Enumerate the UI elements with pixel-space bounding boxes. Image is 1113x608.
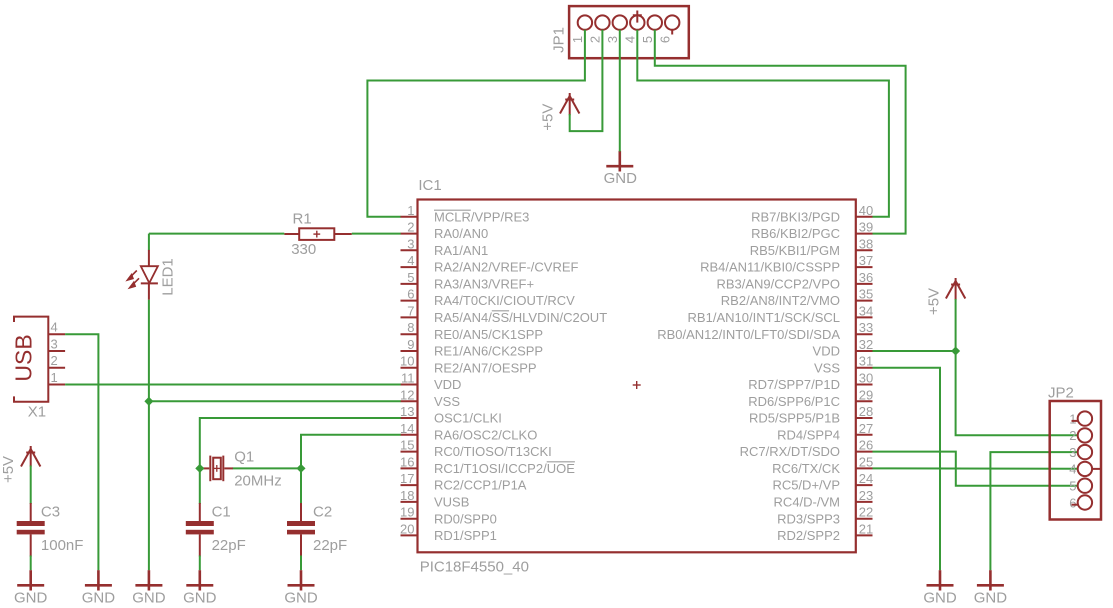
IC1 pin 27 stub [856, 434, 873, 436]
svg-text:3: 3 [605, 36, 620, 43]
svg-text:2: 2 [588, 36, 603, 43]
svg-text:100nF: 100nF [41, 537, 84, 554]
IC1 pin 30 stub [856, 384, 873, 386]
IC1 pin 40 stub [856, 216, 873, 218]
+5V supply symbol (left) [21, 446, 40, 467]
svg-text:25: 25 [859, 454, 873, 469]
svg-text:GND: GND [974, 590, 1008, 607]
svg-text:Q1: Q1 [234, 449, 254, 466]
svg-text:RB0/AN12/INT0/LFT0/SDI/SDA: RB0/AN12/INT0/LFT0/SDI/SDA [657, 327, 840, 342]
svg-text:C1: C1 [212, 504, 231, 521]
wire R1 to IC pin2 [352, 233, 401, 235]
svg-text:4: 4 [51, 320, 58, 335]
svg-text:RC6/TX/CK: RC6/TX/CK [772, 461, 840, 476]
X1 pin 3 stub [48, 350, 65, 352]
svg-text:13: 13 [400, 404, 414, 419]
svg-text:RA5/AN4/SS/HLVDIN/C2OUT: RA5/AN4/SS/HLVDIN/C2OUT [434, 310, 607, 325]
wire +5V to C3 [30, 466, 32, 505]
capacitor C3 [17, 503, 45, 557]
svg-text:RC7/RX/DT/SDO: RC7/RX/DT/SDO [740, 444, 840, 459]
JP1 pin 6 circle [665, 15, 679, 29]
connector JP1 [569, 6, 689, 58]
ground symbol at x=149 [135, 570, 162, 590]
wire IC pin14 OSC2 branch [301, 435, 401, 469]
svg-text:34: 34 [859, 303, 873, 318]
svg-text:RB4/AN11/KBI0/CSSPP: RB4/AN11/KBI0/CSSPP [700, 260, 840, 275]
+5V supply symbol (right) [946, 278, 965, 300]
op IC1 PIC18F4550 body [418, 200, 856, 553]
svg-text:31: 31 [859, 354, 873, 369]
ground symbol at x=98 [85, 570, 112, 590]
JP2 pin 1 circle [1078, 411, 1092, 425]
IC1 pin 2 stub [401, 233, 418, 235]
IC1 pin 12 stub [401, 400, 418, 402]
overline for SS [492, 310, 509, 312]
wire IC pin32 VDD to +5V rail [873, 350, 956, 352]
svg-text:GND: GND [82, 590, 116, 607]
svg-text:28: 28 [859, 404, 873, 419]
IC1 pin 4 stub [401, 266, 418, 268]
svg-text:PIC18F4550_40: PIC18F4550_40 [420, 559, 529, 576]
svg-text:VSS: VSS [814, 360, 840, 375]
IC1 pin 22 stub [856, 518, 873, 520]
wire crystal left lead [200, 467, 204, 469]
IC1 pin 14 stub [401, 434, 418, 436]
X1 pin 2 stub [48, 367, 65, 369]
svg-text:10: 10 [400, 354, 414, 369]
svg-text:37: 37 [859, 253, 873, 268]
wire IC pin26 RC7 to JP2 pin5 [873, 452, 1079, 486]
JP1 pin 5 circle [648, 15, 662, 29]
IC1 pin 33 stub [856, 333, 873, 335]
IC1 pin 10 stub [401, 367, 418, 369]
wire LED corner to R1 [149, 233, 284, 235]
junction +5V rail / pin32 [951, 346, 960, 355]
ground symbol at x=990 [977, 570, 1004, 590]
svg-text:OSC1/CLKI: OSC1/CLKI [434, 411, 502, 426]
JP1 pin 1 circle [578, 15, 592, 29]
wire X1 pin1 to IC pin11 VDD [65, 384, 401, 386]
junction crystal left node [195, 464, 204, 473]
svg-text:GND: GND [132, 590, 166, 607]
IC1 pin 6 stub [401, 300, 418, 302]
connector JP2 body [1050, 401, 1101, 520]
wire C2 top [300, 468, 302, 504]
IC1 pin 21 stub [856, 534, 873, 536]
svg-text:RD4/SPP4: RD4/SPP4 [777, 427, 840, 442]
svg-text:3: 3 [51, 337, 58, 352]
svg-text:RC1/T1OSI/ICCP2/UOE: RC1/T1OSI/ICCP2/UOE [434, 461, 575, 476]
svg-text:GND: GND [604, 170, 638, 187]
svg-text:RA3/AN3/VREF+: RA3/AN3/VREF+ [434, 277, 534, 292]
JP2 pin 3 circle [1078, 445, 1092, 459]
svg-text:24: 24 [859, 471, 873, 486]
IC1 pin 16 stub [401, 467, 418, 469]
wire +5V right rail to JP2 pin2 [956, 299, 1078, 435]
IC1 pin 11 stub [401, 384, 418, 386]
svg-text:+5V: +5V [926, 288, 943, 315]
svg-text:1: 1 [1069, 411, 1076, 426]
svg-text:LED1: LED1 [159, 258, 176, 296]
USB connector X1 body [14, 317, 48, 402]
svg-text:23: 23 [859, 488, 873, 503]
junction LED1 net / IC pin12 VSS [144, 397, 153, 406]
svg-text:RD7/SPP7/P1D: RD7/SPP7/P1D [748, 377, 840, 392]
IC1 pin 8 stub [401, 333, 418, 335]
wire C1 top [199, 468, 201, 504]
wire JP1 pin2 to +5V [570, 30, 603, 131]
svg-text:JP1: JP1 [551, 27, 568, 53]
svg-text:RD3/SPP3: RD3/SPP3 [777, 511, 840, 526]
svg-text:RB3/AN9/CCP2/VPO: RB3/AN9/CCP2/VPO [716, 277, 840, 292]
svg-text:GND: GND [284, 590, 318, 607]
JP1 pin 3 circle [613, 15, 627, 29]
IC1 pin 15 stub [401, 451, 418, 453]
svg-text:2: 2 [51, 353, 58, 368]
svg-text:16: 16 [400, 454, 414, 469]
svg-text:RB2/AN8/INT2/VMO: RB2/AN8/INT2/VMO [721, 293, 840, 308]
svg-text:C2: C2 [313, 504, 332, 521]
LED LED1 [127, 250, 158, 300]
svg-text:GND: GND [183, 590, 217, 607]
junction crystal right node [296, 464, 305, 473]
svg-text:330: 330 [291, 241, 316, 258]
svg-text:RA2/AN2/VREF-/CVREF: RA2/AN2/VREF-/CVREF [434, 260, 579, 275]
svg-text:RC0/TIOSO/T13CKI: RC0/TIOSO/T13CKI [434, 444, 552, 459]
svg-text:20: 20 [400, 521, 414, 536]
svg-text:3: 3 [1069, 445, 1076, 460]
svg-text:6: 6 [658, 36, 673, 43]
wire C2 to GND [300, 556, 302, 571]
wire JP1 pin4 to IC pin40 [637, 30, 889, 217]
svg-text:1: 1 [407, 203, 414, 218]
X1 pin 1 stub [48, 384, 65, 386]
ground symbol at x=200 [186, 570, 213, 590]
wire R1 corner down to LED1 anode [148, 234, 150, 251]
wire IC pin13 OSC1 branch [200, 418, 401, 468]
svg-text:21: 21 [859, 521, 873, 536]
svg-text:GND: GND [14, 590, 48, 607]
IC1 pin 37 stub [856, 266, 873, 268]
IC1 pin 39 stub [856, 233, 873, 235]
svg-text:RE2/AN7/OESPP: RE2/AN7/OESPP [434, 360, 537, 375]
wire C3 to GND [30, 556, 32, 571]
JP2 pin 5 circle [1078, 479, 1092, 493]
IC1 pin 24 stub [856, 484, 873, 486]
svg-text:USB: USB [10, 334, 36, 381]
wire JP1 pin5 to IC pin39 [655, 30, 906, 234]
svg-text:5: 5 [407, 270, 414, 285]
svg-text:22: 22 [859, 505, 873, 520]
svg-text:15: 15 [400, 438, 414, 453]
wire IC pin25 RC6 to JP2 pin4 [873, 467, 1079, 469]
svg-text:MCLR/VPP/RE3: MCLR/VPP/RE3 [434, 209, 529, 224]
svg-text:RE1/AN6/CK2SPP: RE1/AN6/CK2SPP [434, 344, 543, 359]
wire X1 pin4 to GND rail [65, 334, 98, 570]
svg-text:17: 17 [400, 471, 414, 486]
svg-text:+5V: +5V [0, 456, 17, 483]
svg-text:2: 2 [1069, 428, 1076, 443]
svg-text:7: 7 [407, 303, 414, 318]
capacitor C1 [186, 503, 214, 557]
svg-text:RD5/SPP5/P1B: RD5/SPP5/P1B [749, 411, 840, 426]
svg-text:36: 36 [859, 270, 873, 285]
JP2 pin 6 circle [1078, 495, 1092, 509]
svg-text:6: 6 [407, 287, 414, 302]
ground symbol (top, JP1 pin3) [606, 151, 633, 172]
IC1 pin 17 stub [401, 484, 418, 486]
svg-text:40: 40 [859, 203, 873, 218]
svg-text:30: 30 [859, 371, 873, 386]
svg-text:RB1/AN10/INT1/SCK/SCL: RB1/AN10/INT1/SCK/SCL [688, 310, 840, 325]
svg-text:6: 6 [1069, 495, 1076, 510]
svg-text:9: 9 [407, 337, 414, 352]
wire crystal right lead [233, 467, 302, 469]
IC1 pin 29 stub [856, 400, 873, 402]
svg-text:39: 39 [859, 220, 873, 235]
wire LED1 cathode down to GND [148, 300, 150, 570]
IC1 pin 23 stub [856, 501, 873, 503]
svg-text:RD6/SPP6/P1C: RD6/SPP6/P1C [748, 394, 840, 409]
svg-text:4: 4 [623, 36, 638, 43]
JP1 pin 4 origin cross [633, 11, 642, 23]
svg-text:22pF: 22pF [212, 537, 246, 554]
svg-text:RB6/KBI2/PGC: RB6/KBI2/PGC [751, 226, 840, 241]
wire JP1 pin1 to IC pin1 MCLR [367, 30, 585, 217]
ground symbol at x=940 [927, 570, 954, 590]
svg-text:26: 26 [859, 438, 873, 453]
svg-text:RD2/SPP2: RD2/SPP2 [777, 528, 840, 543]
svg-text:38: 38 [859, 236, 873, 251]
capacitor C2 [287, 503, 315, 557]
JP1 pin 2 circle [595, 15, 609, 29]
wire C1 to GND [199, 556, 201, 571]
wire IC pin31 VSS to GND [873, 368, 941, 571]
IC1 pin 38 stub [856, 249, 873, 251]
svg-text:5: 5 [1069, 479, 1076, 494]
svg-text:20MHz: 20MHz [234, 473, 282, 490]
JP2 pin 1 origin stub [1072, 420, 1079, 422]
X1 pin 4 stub [48, 333, 65, 335]
svg-text:14: 14 [400, 421, 414, 436]
svg-text:RA1/AN1: RA1/AN1 [434, 243, 488, 258]
wire JP1 pin3 to GND [619, 30, 621, 152]
svg-text:18: 18 [400, 488, 414, 503]
svg-text:VDD: VDD [434, 377, 461, 392]
svg-text:C3: C3 [41, 504, 60, 521]
svg-text:JP2: JP2 [1048, 385, 1074, 402]
svg-text:RC2/CCP1/P1A: RC2/CCP1/P1A [434, 478, 527, 493]
svg-text:RD0/SPP0: RD0/SPP0 [434, 511, 497, 526]
IC1 pin 35 stub [856, 300, 873, 302]
svg-text:32: 32 [859, 337, 873, 352]
svg-text:33: 33 [859, 320, 873, 335]
JP2 pin 2 circle [1078, 428, 1092, 442]
svg-text:VUSB: VUSB [434, 495, 469, 510]
svg-text:IC1: IC1 [418, 177, 441, 194]
svg-text:4: 4 [1069, 462, 1076, 477]
svg-text:RA6/OSC2/CLKO: RA6/OSC2/CLKO [434, 427, 537, 442]
IC1 pin 9 stub [401, 350, 418, 352]
IC1 pin 26 stub [856, 451, 873, 453]
svg-text:1: 1 [570, 36, 585, 43]
+5V supply symbol (top) [560, 93, 579, 115]
ground symbol at x=301 [288, 570, 315, 590]
IC1 pin 3 stub [401, 249, 418, 251]
svg-text:RC5/D+/VP: RC5/D+/VP [772, 478, 840, 493]
IC1 pin 18 stub [401, 501, 418, 503]
svg-text:27: 27 [859, 421, 873, 436]
svg-text:8: 8 [407, 320, 414, 335]
svg-text:R1: R1 [293, 211, 312, 228]
IC1 pin 32 stub [856, 350, 873, 352]
JP2 pin 4 circle [1078, 462, 1092, 476]
svg-text:1: 1 [51, 370, 58, 385]
IC1 pin 25 stub [856, 467, 873, 469]
wire junction to IC pin12 VSS [149, 400, 401, 402]
svg-text:11: 11 [401, 371, 415, 386]
svg-text:29: 29 [859, 387, 873, 402]
IC1 pin 13 stub [401, 417, 418, 419]
svg-text:GND: GND [923, 590, 957, 607]
JP1 pin 6 origin stub [671, 30, 673, 35]
JP2 pin 4 origin stub [1092, 468, 1100, 470]
overline for MCLR [434, 209, 471, 211]
svg-text:RC4/D-/VM: RC4/D-/VM [774, 495, 840, 510]
IC1 pin 36 stub [856, 283, 873, 285]
svg-text:VSS: VSS [434, 394, 460, 409]
IC1 pin 7 stub [401, 316, 418, 318]
overline for UOE [547, 461, 575, 463]
IC1 pin 5 stub [401, 283, 418, 285]
resistor R1 [284, 228, 352, 240]
IC1 pin 34 stub [856, 316, 873, 318]
svg-text:VDD: VDD [813, 344, 840, 359]
wire JP2 pin3 to GND [990, 452, 1078, 570]
svg-text:RB7/BKI3/PGD: RB7/BKI3/PGD [751, 209, 840, 224]
svg-text:35: 35 [859, 287, 873, 302]
IC1 pin 31 stub [856, 367, 873, 369]
svg-text:4: 4 [407, 253, 414, 268]
svg-text:RE0/AN5/CK1SPP: RE0/AN5/CK1SPP [434, 327, 543, 342]
ground symbol at x=31 [17, 570, 44, 590]
IC1 pin 20 stub [401, 534, 418, 536]
svg-text:5: 5 [640, 36, 655, 43]
IC1 origin cross [633, 381, 641, 389]
svg-text:12: 12 [400, 387, 414, 402]
svg-text:22pF: 22pF [313, 537, 347, 554]
IC1 pin 28 stub [856, 417, 873, 419]
svg-text:X1: X1 [28, 404, 46, 421]
svg-text:2: 2 [407, 220, 414, 235]
svg-text:19: 19 [400, 505, 414, 520]
crystal Q1 [204, 456, 233, 482]
IC1 pin 1 stub [401, 216, 418, 218]
IC1 pin 19 stub [401, 518, 418, 520]
JP2 pin 6 origin stub [1072, 504, 1079, 506]
svg-text:3: 3 [407, 236, 414, 251]
svg-text:RD1/SPP1: RD1/SPP1 [434, 528, 497, 543]
JP1 pin 4 circle [630, 15, 644, 29]
svg-text:+5V: +5V [540, 104, 557, 131]
svg-text:RA0/AN0: RA0/AN0 [434, 226, 488, 241]
svg-text:RA4/T0CKI/CIOUT/RCV: RA4/T0CKI/CIOUT/RCV [434, 293, 575, 308]
svg-text:RB5/KBI1/PGM: RB5/KBI1/PGM [750, 243, 840, 258]
